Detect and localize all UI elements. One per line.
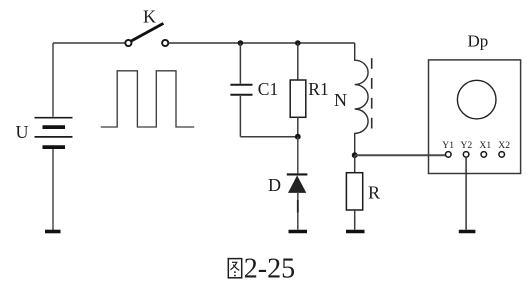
wire: top rail from switch to inductor corner [168,42,354,44]
inductor core (dashed) [371,58,373,128]
terminal X1 [481,152,487,158]
wire: C1 bottom to node 3 [240,136,297,138]
capacitor C1 [230,85,252,95]
svg-text:K: K [143,7,156,27]
wire: C1 bottom lead [239,96,241,137]
svg-text:Y2: Y2 [461,140,473,151]
svg-text:Dp: Dp [468,32,489,51]
node 2 (rail / R1) [295,40,301,46]
battery U [35,118,73,147]
wire: node 3 to diode cathode [297,137,299,174]
caption character 图 [228,259,241,278]
svg-text:N: N [334,90,347,110]
diode D [287,174,308,193]
oscilloscope Dp (case) [429,60,521,174]
svg-text:X1: X1 [479,140,491,151]
node 4 (inductor bottom / R / scope) [352,152,358,158]
wire: node 4 to scope Y1 [355,154,446,156]
ground (R) [346,230,365,234]
wire: battery top to switch rail [53,42,125,44]
wire: battery negative lead down [52,149,54,230]
svg-text:C1: C1 [258,79,278,99]
terminal X2 [499,152,505,158]
svg-text:R1: R1 [308,79,328,99]
resistor R1 [290,80,306,117]
resistor R [346,173,362,210]
wire: Y2 terminal to ground [465,157,467,229]
wire: R1 top lead [297,43,299,80]
switch K [125,23,168,46]
terminal Y2 [463,152,469,158]
square wave symbol [101,71,194,127]
svg-text:D: D [268,175,281,195]
svg-text:X2: X2 [498,140,510,151]
terminal Y1 [446,152,452,158]
ground (battery) [45,230,61,234]
svg-text:2-25: 2-25 [244,253,295,284]
wire: diode anode to ground [297,193,299,230]
node 1 (rail / C1) [238,40,244,46]
svg-text:U: U [16,122,29,142]
wire: R1 bottom lead [297,117,299,136]
wire: C1 top lead [239,43,241,84]
node 3 (C1/R1 bottom junction) [295,134,301,140]
svg-text:R: R [368,183,380,203]
wire: node 4 to R top [354,155,356,173]
wire: diode lead dark segment [297,200,299,213]
svg-text:Y1: Y1 [442,140,454,151]
ground (diode) [289,230,308,234]
oscilloscope screen [457,80,496,119]
ground (oscilloscope) [459,230,476,234]
wire: R bottom lead [354,210,356,230]
wire: battery positive lead down [52,43,54,117]
inductor N (winding) [355,43,368,155]
